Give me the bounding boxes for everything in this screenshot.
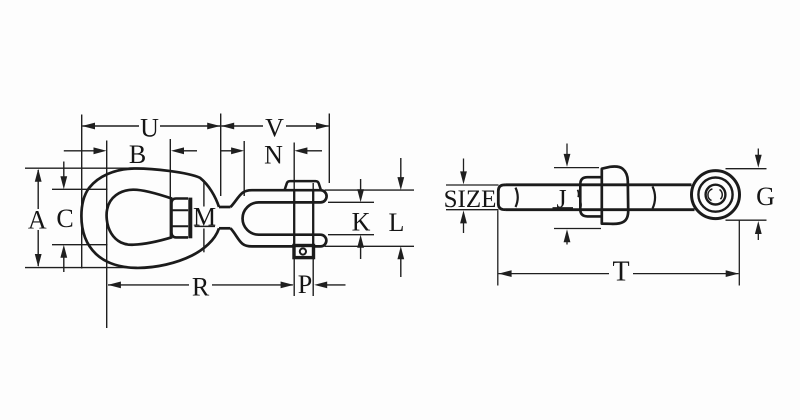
wire: extension line eye-left (U left / tangent) (81, 115, 83, 269)
arrow U left (82, 123, 95, 130)
dimension L top arrow stem (400, 158, 402, 178)
wire: extension line N left (243, 141, 245, 196)
nut M facet line upper (172, 209, 188, 211)
arrow G top (755, 155, 762, 168)
rod top edge (506, 183, 692, 186)
svg-text:B: B (129, 140, 146, 169)
dimension C bottom arrow stem (63, 257, 65, 273)
arrow R right / P left (281, 282, 294, 289)
wire: J top extension (554, 167, 599, 169)
wire: L top extension (325, 189, 415, 191)
pin head (285, 181, 321, 190)
rod break mark mid dashes (578, 190, 579, 197)
wire: extension line V right (328, 114, 330, 184)
arrow J top (564, 154, 571, 167)
eye ring inner circle (706, 185, 726, 205)
label M underline (195, 225, 216, 227)
wire: K top extension (328, 201, 374, 203)
dimension J bottom arrow stem (566, 241, 568, 245)
part outlines, left figure (81, 168, 326, 267)
wire: L bottom extension (325, 245, 415, 247)
pin retainer plate (294, 246, 314, 258)
arrow N left (231, 147, 244, 154)
arrow SIZE top (460, 171, 467, 184)
dimension T line (499, 273, 610, 275)
svg-text:M: M (193, 202, 216, 231)
arrow C top (60, 176, 67, 189)
pin right edge (312, 190, 314, 245)
eye bore arc left (708, 189, 712, 201)
label J underline (553, 207, 574, 209)
swivel eye outer outline (81, 168, 219, 267)
rod left rounded cap (498, 185, 506, 210)
dimension K bottom arrow stem (360, 247, 362, 260)
wire: extension line U/V shared (220, 114, 222, 197)
pin through jaw: body edges (294, 190, 313, 245)
svg-text:G: G (756, 182, 775, 211)
arrow V right (316, 123, 329, 130)
nut on swivel (left figure) (172, 198, 191, 239)
svg-text:T: T (612, 257, 629, 288)
arrow L bottom (397, 246, 404, 259)
arrow N right (294, 147, 307, 154)
arrow A top (35, 169, 42, 182)
wire: extension line B right (169, 139, 171, 239)
pin left edge (293, 190, 295, 245)
wire: extension line pin right (P right) (312, 183, 314, 296)
arrow A bottom (35, 254, 42, 267)
dimension B left arrow line (64, 150, 95, 152)
arrow L top (397, 177, 404, 190)
dimension N right arrow line (307, 150, 322, 152)
svg-text:K: K (352, 208, 371, 237)
wire: C top extension (52, 188, 108, 190)
rod bottom edge (506, 208, 695, 211)
arrow J bottom (564, 229, 571, 242)
swivel eye inner opening (107, 190, 173, 245)
svg-text:SIZE: SIZE (444, 186, 497, 213)
svg-text:R: R (192, 273, 210, 302)
nut M right face bar (188, 198, 192, 239)
arrow K top (357, 189, 364, 202)
wire: T right extension (738, 221, 740, 286)
dimension C top arrow stem (63, 162, 65, 178)
dimension K top arrow stem (360, 179, 362, 191)
arrow SIZE bottom (460, 210, 467, 223)
jaw outline (231, 190, 327, 246)
svg-text:V: V (265, 114, 284, 143)
dimension P right arrow stem (327, 284, 346, 286)
arrow U right (207, 123, 220, 130)
svg-text:N: N (264, 141, 283, 170)
arrow P right (314, 282, 327, 289)
svg-text:L: L (389, 208, 405, 237)
arrow R left (108, 282, 121, 289)
arrow T left (499, 270, 512, 277)
dimension A line (37, 170, 39, 209)
wire: SIZE bottom extension (446, 209, 499, 211)
dimension R line (108, 284, 189, 286)
wire: A bottom extension (25, 267, 131, 269)
wire: extension line pin left (N right / R right / P left) (293, 143, 295, 297)
wire: A top extension (25, 167, 130, 169)
nut on rod (602, 166, 628, 223)
eye ring outer circle (692, 171, 740, 219)
dimension V line (221, 125, 263, 127)
arrow B right (171, 147, 184, 154)
arrow V left (221, 123, 234, 130)
rod break mark left (516, 188, 518, 207)
wire: K bottom extension (328, 234, 374, 236)
nut M outline (172, 199, 189, 238)
wire: G bottom extension (726, 219, 767, 221)
dimension J top arrow stem (566, 144, 568, 155)
arrowheads (35, 123, 404, 289)
arrow C bottom (60, 245, 67, 258)
dimension U line (83, 125, 140, 127)
wire: J bottom extension (554, 228, 601, 230)
wire: C bottom extension (52, 244, 108, 246)
arrow K bottom (357, 235, 364, 248)
wire: T left extension (497, 211, 499, 286)
node M extension line (203, 180, 205, 252)
nut M facet line lower (172, 225, 188, 227)
wire: G top extension (726, 168, 767, 170)
dimension N left arrow line (221, 150, 233, 152)
svg-text:A: A (28, 206, 47, 235)
wire: SIZE top extension (446, 184, 499, 186)
wire: extension line inner-eye-left (B left / R left) (106, 141, 108, 329)
svg-text:J: J (556, 185, 566, 214)
rod break mark right (653, 186, 656, 208)
arrow T right (726, 270, 739, 277)
pin retainer circle (300, 248, 306, 254)
dimension G bottom arrow stem (757, 234, 759, 240)
dimension SIZE bottom arrow stem (463, 223, 465, 234)
svg-text:U: U (140, 114, 159, 143)
svg-text:P: P (298, 270, 312, 299)
arrow G bottom (755, 221, 762, 234)
pin rod outline (498, 185, 694, 210)
dimension G top arrow stem (757, 149, 759, 156)
eye bore arc right (720, 190, 723, 200)
arrow B left (94, 147, 107, 154)
neck top edge (219, 206, 231, 209)
dimension SIZE top arrow stem (463, 159, 465, 173)
dimension B right arrow line (183, 150, 197, 152)
dimension L bottom arrow stem (400, 259, 402, 278)
svg-text:C: C (56, 204, 73, 233)
collar washer (580, 177, 601, 216)
neck bottom edge (219, 227, 231, 230)
eye ring middle circle (698, 178, 732, 212)
